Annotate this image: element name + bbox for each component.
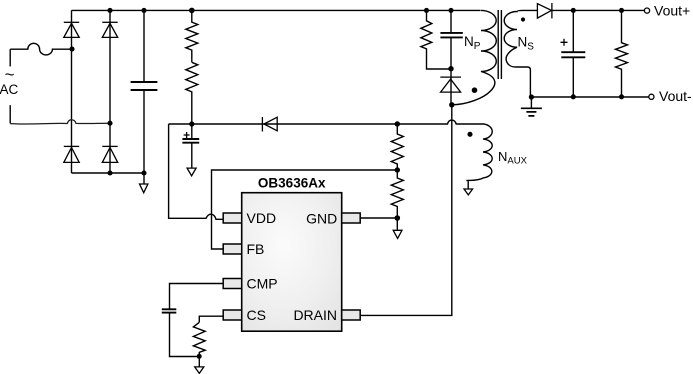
terminal Vout- xyxy=(649,94,654,99)
wire output bottom rail xyxy=(531,96,648,98)
junction dots xyxy=(107,8,112,13)
svg-text:Vout+: Vout+ xyxy=(654,3,690,19)
diode D7 output rectifier pointing right xyxy=(537,4,551,18)
wire FB tap horizontal y=170 xyxy=(212,170,398,249)
svg-text:GND: GND xyxy=(306,211,337,227)
svg-text:NAUX: NAUX xyxy=(498,149,528,167)
diode D4 bridge lower-right xyxy=(102,145,117,147)
polarity dot NS xyxy=(521,17,525,21)
resistor R4 divider lower xyxy=(391,170,403,230)
wire CS to resistor xyxy=(199,316,223,322)
ground arrow under R7 xyxy=(195,367,204,374)
pin VDD xyxy=(223,213,242,223)
pin CS xyxy=(223,310,242,320)
fuse wavy segment on AC top wire xyxy=(10,43,72,55)
ground arrow under NAUX xyxy=(464,189,473,195)
capacitor C2 VDD (polarized) xyxy=(191,124,193,139)
auxiliary winding NAUX xyxy=(466,124,492,189)
pin CMP xyxy=(223,279,242,289)
svg-text:FB: FB xyxy=(247,241,265,257)
resistor R6 output load xyxy=(616,10,628,97)
polarity dot NP xyxy=(472,87,478,93)
diode D1 bridge upper-left xyxy=(64,21,79,23)
svg-text:NP: NP xyxy=(464,34,481,52)
pin DRAIN xyxy=(342,310,361,320)
diode D3 bridge lower-left xyxy=(64,145,79,147)
svg-text:VDD: VDD xyxy=(247,210,277,226)
wire VDD left loop down to VDD pin with hop over FB wire xyxy=(169,124,224,219)
svg-text:CS: CS xyxy=(247,307,266,323)
svg-text:Vout-: Vout- xyxy=(659,88,692,104)
resistor R3 divider upper xyxy=(391,124,403,170)
wire GND pin to divider xyxy=(360,217,398,219)
AC bottom wire with hop over left column xyxy=(10,120,110,124)
resistor R2 startup lower xyxy=(186,62,198,124)
wire bridge left column xyxy=(71,10,73,173)
svg-text:AC: AC xyxy=(0,82,19,97)
wire output top rail xyxy=(552,9,645,11)
diode D6 snubber clamp pointing up xyxy=(440,76,461,78)
ground arrow under C2 xyxy=(187,168,196,176)
capacitor C4 output (polarized) xyxy=(572,10,574,52)
capacitor C1 bulk filter xyxy=(143,10,145,82)
wire top rail xyxy=(72,9,481,11)
IC U1 OB3636Ax body xyxy=(242,193,342,332)
resistor R5 snubber xyxy=(421,10,451,69)
ground arrow under divider xyxy=(393,230,402,238)
wire drain vertical xyxy=(360,105,452,316)
diode D2 bridge upper-right xyxy=(102,21,117,23)
resistor R7 current sense xyxy=(193,322,205,367)
capacitor C3 snubber xyxy=(450,10,452,33)
resistor R1 startup upper xyxy=(186,10,198,62)
svg-text:DRAIN: DRAIN xyxy=(293,307,337,323)
wire CMP network xyxy=(170,284,224,310)
transformer core xyxy=(498,10,501,79)
terminal Vout+ xyxy=(644,8,649,13)
AC source loop left side xyxy=(9,49,11,123)
svg-text:OB3636Ax: OB3636Ax xyxy=(258,176,326,191)
transformer secondary winding NS xyxy=(504,10,537,96)
plus sign of C4 xyxy=(561,39,568,46)
capacitor C5 CMP xyxy=(162,308,177,310)
pin GND xyxy=(342,213,361,223)
svg-text:NS: NS xyxy=(518,35,535,53)
pin FB xyxy=(223,244,242,254)
svg-text:CMP: CMP xyxy=(247,275,278,291)
diode D5 VDD rectifier pointing left xyxy=(261,117,263,132)
polarity dot NAUX xyxy=(467,132,472,137)
transformer primary winding NP xyxy=(452,10,496,104)
svg-text:~: ~ xyxy=(5,65,15,84)
wire bottom rail of bridge xyxy=(72,172,145,174)
plus sign of C2 xyxy=(184,132,190,138)
wire VDD node horizontal y=124 xyxy=(169,120,484,124)
ground arrow under C1 xyxy=(140,184,148,193)
wire bridge right column xyxy=(109,10,111,173)
earth ground at NS return xyxy=(530,97,532,108)
